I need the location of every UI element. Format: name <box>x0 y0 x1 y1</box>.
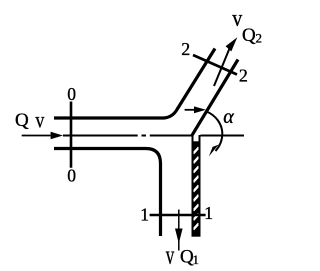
svg-text:v: v <box>35 108 44 133</box>
plate (hatched wall of down branch) <box>192 134 201 236</box>
wire: centerline dash-dot <box>63 135 138 137</box>
wire: branch flow arrow <box>214 49 230 87</box>
wire: branch right wall <box>192 60 238 136</box>
svg-text:v: v <box>232 6 242 32</box>
svg-text:1: 1 <box>140 205 149 225</box>
svg-text:2: 2 <box>239 66 248 86</box>
node section 0-0 line <box>70 102 73 168</box>
angle alpha small arrow <box>185 109 195 111</box>
svg-text:0: 0 <box>67 84 76 104</box>
svg-text:Q: Q <box>15 110 29 131</box>
svg-text:0: 0 <box>67 166 76 186</box>
wire: inlet flow arrow on centerline <box>22 135 51 137</box>
svg-text:2: 2 <box>256 31 263 46</box>
wire: centerline right of plate <box>201 135 245 137</box>
node section 2-2 line <box>193 55 237 75</box>
angle alpha arc <box>207 112 223 152</box>
svg-text:2: 2 <box>181 39 190 59</box>
down-branch flow arrow <box>178 210 180 251</box>
wire: top pipe wall curving into branch left wall <box>54 49 215 119</box>
svg-text:1: 1 <box>193 252 200 267</box>
wire: bottom pipe wall curving into down-branch left wall <box>54 149 161 237</box>
node section 1-1 line <box>150 214 206 216</box>
svg-text:v: v <box>166 240 175 269</box>
svg-text:1: 1 <box>204 203 213 223</box>
svg-text:Q: Q <box>242 25 256 46</box>
svg-text:α: α <box>223 106 234 128</box>
